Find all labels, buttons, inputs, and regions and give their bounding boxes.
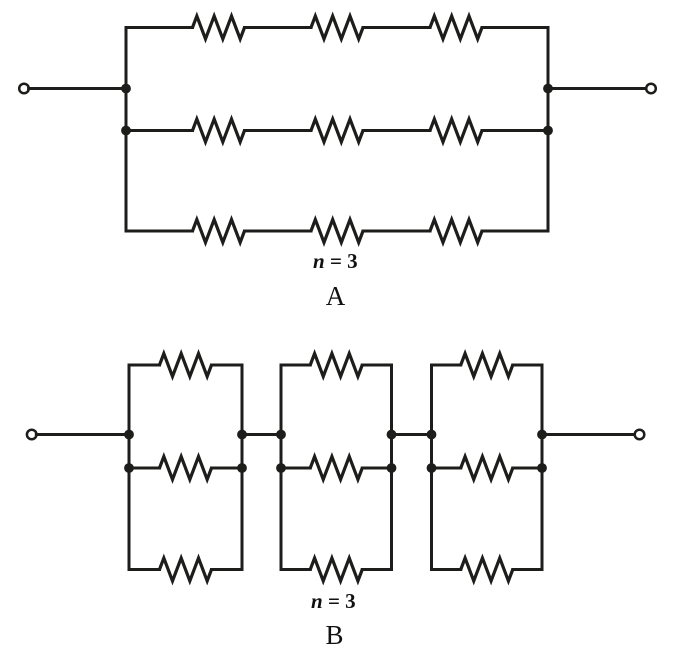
wire middle branch B section 3 xyxy=(513,467,542,470)
input terminal (circuit A) xyxy=(19,84,29,94)
node main-line left junction B section 1 xyxy=(124,430,134,440)
svg-text:n = 3: n = 3 xyxy=(313,249,358,273)
wire right bus B section 3 xyxy=(541,365,544,570)
input terminal (circuit B) xyxy=(27,430,37,440)
wire bottom branch B section 3 xyxy=(432,568,461,571)
wire middle branch B section 3 xyxy=(432,467,461,470)
wire middle branch A xyxy=(245,129,312,132)
wire bottom branch B section 2 xyxy=(362,568,391,571)
wire bottom branch B section 2 xyxy=(281,568,310,571)
wire left bus B section 2 xyxy=(280,365,283,570)
wire middle branch A xyxy=(482,129,548,132)
wire bottom branch A xyxy=(245,230,312,233)
svg-text:B: B xyxy=(325,620,343,649)
wire bottom branch B section 3 xyxy=(513,568,542,571)
wire top branch A xyxy=(245,26,312,29)
resistor R1 xyxy=(193,16,245,39)
wire bottom branch B section 1 xyxy=(129,568,160,571)
node middle-branch right junction B section 1 xyxy=(237,463,247,473)
wire link section 2-3 B xyxy=(392,433,432,436)
wire output lead A xyxy=(548,87,646,90)
resistor R11 xyxy=(160,457,212,480)
svg-text:n = 3: n = 3 xyxy=(311,589,356,613)
node middle-branch right junction B section 3 xyxy=(537,463,547,473)
wire top branch B section 2 xyxy=(281,364,310,367)
wire bottom branch A xyxy=(363,230,430,233)
resistor R2 xyxy=(311,16,363,39)
node main-line left junction B section 3 xyxy=(427,430,437,440)
output terminal (circuit B) xyxy=(635,430,645,440)
wire right bus B section 2 xyxy=(390,365,393,570)
wire left bus B section 3 xyxy=(430,365,433,570)
node middle-branch right junction B section 2 xyxy=(387,463,397,473)
wire top branch A xyxy=(363,26,430,29)
node middle-branch left junction A xyxy=(121,126,131,136)
wire top branch B section 1 xyxy=(212,364,243,367)
node input junction A xyxy=(121,84,131,94)
resistor R13 xyxy=(310,354,362,377)
wire bottom branch B section 1 xyxy=(212,568,243,571)
wire input lead A xyxy=(29,87,126,90)
resistor R4 xyxy=(193,119,245,142)
wire middle branch B section 1 xyxy=(212,467,243,470)
wire middle branch B section 2 xyxy=(362,467,391,470)
resistor R5 xyxy=(311,119,363,142)
wire bottom branch A xyxy=(126,230,193,233)
resistor R9 xyxy=(430,220,482,243)
resistor R18 xyxy=(461,558,513,581)
wire left bus B section 1 xyxy=(128,365,131,570)
wire link section 1-2 B xyxy=(242,433,281,436)
wire top branch A xyxy=(482,26,548,29)
wire middle branch B section 1 xyxy=(129,467,160,470)
resistor R15 xyxy=(310,558,362,581)
wire top branch B section 2 xyxy=(362,364,391,367)
wire top branch B section 3 xyxy=(513,364,542,367)
wire bottom branch A xyxy=(482,230,548,233)
resistor R10 xyxy=(160,354,212,377)
resistor R3 xyxy=(430,16,482,39)
resistor R16 xyxy=(461,354,513,377)
node main-line right junction B section 1 xyxy=(237,430,247,440)
wire right bus A xyxy=(547,28,550,232)
node middle-branch left junction B section 3 xyxy=(427,463,437,473)
resistor R17 xyxy=(461,457,513,480)
node output junction A xyxy=(543,84,553,94)
wire middle branch B section 2 xyxy=(281,467,310,470)
node main-line right junction B section 2 xyxy=(387,430,397,440)
node main-line left junction B section 2 xyxy=(276,430,286,440)
wire left bus A xyxy=(125,28,128,232)
node main-line right junction B section 3 xyxy=(537,430,547,440)
svg-text:A: A xyxy=(326,281,346,311)
wire middle branch A xyxy=(363,129,430,132)
node middle-branch right junction A xyxy=(543,126,553,136)
node middle-branch left junction B section 2 xyxy=(276,463,286,473)
wire middle branch A xyxy=(126,129,193,132)
resistor R7 xyxy=(193,220,245,243)
output terminal (circuit A) xyxy=(646,84,656,94)
node middle-branch left junction B section 1 xyxy=(124,463,134,473)
wire top branch B section 3 xyxy=(432,364,461,367)
resistor R14 xyxy=(310,457,362,480)
wire output lead B xyxy=(542,433,635,436)
wire right bus B section 1 xyxy=(241,365,244,570)
wire top branch A xyxy=(126,26,193,29)
wire top branch B section 1 xyxy=(129,364,160,367)
resistor R8 xyxy=(311,220,363,243)
wire input lead B xyxy=(36,433,129,436)
resistor R12 xyxy=(160,558,212,581)
resistor R6 xyxy=(430,119,482,142)
